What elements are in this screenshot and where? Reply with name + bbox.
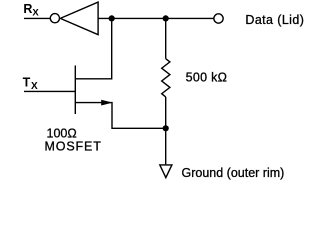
svg-text:500 kΩ: 500 kΩ [186, 70, 228, 84]
svg-text:RX: RX [23, 2, 39, 19]
svg-text:TX: TX [23, 76, 38, 93]
svg-text:MOSFET: MOSFET [45, 139, 102, 153]
svg-text:Data (Lid): Data (Lid) [245, 13, 304, 27]
svg-text:Ground (outer rim): Ground (outer rim) [182, 166, 285, 180]
